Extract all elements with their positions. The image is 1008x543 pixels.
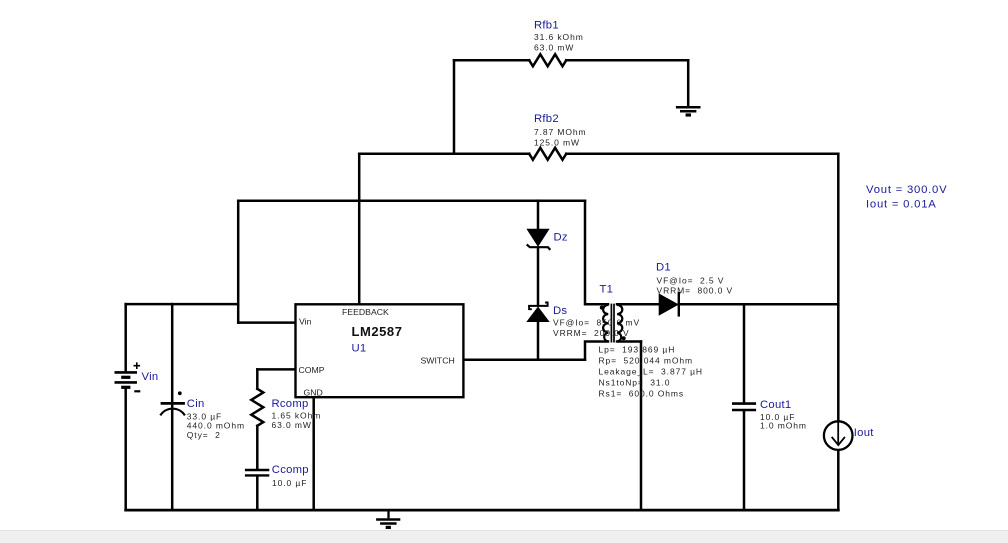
wire Dz top [537,201,540,229]
wire Cin bottom [171,405,174,511]
wire Vin net top horizontal [238,199,585,202]
resistor Rfb1 [529,54,566,66]
svg-text:63.0 mW: 63.0 mW [272,420,312,430]
zener diode Dz [527,229,551,250]
svg-text:Iout: Iout [854,427,874,439]
wire Vin net left vertical [237,201,240,323]
wire Ds bottom [537,322,540,360]
svg-text:Rs1= 600.0 Ohms: Rs1= 600.0 Ohms [599,389,685,399]
wire vertical Rfb1 to Rfb2 node [453,60,456,154]
diode D1 [659,292,679,317]
wire COMP to Rcomp [256,369,259,388]
transformer T1 secondary winding [617,305,622,342]
svg-text:Qty= 2: Qty= 2 [187,430,221,440]
wire battery top [124,304,127,371]
svg-text:T1: T1 [600,284,614,296]
svg-text:Ds: Ds [553,305,567,317]
wire Rfb2 left segment (feedback node) [359,153,529,156]
capacitor Cin [160,391,185,415]
svg-text:Iout = 0.01A: Iout = 0.01A [866,198,937,210]
transformer T1 core [611,304,614,343]
wire input rail [126,303,239,306]
wire battery bottom [124,389,127,510]
svg-text:31.6 kOhm: 31.6 kOhm [534,32,584,42]
svg-text:125.0 mW: 125.0 mW [534,138,580,148]
current source Iout [824,421,853,450]
capacitor Cout1 [732,404,756,410]
wire D1 cathode to output [679,303,839,306]
wire secondary top to D1 [617,303,659,306]
resistor Rfb2 [529,148,566,160]
wire to Vin pin [238,321,295,324]
svg-text:10.0 µF: 10.0 µF [272,478,307,488]
svg-text:Rfb1: Rfb1 [534,20,559,32]
transformer T1 primary winding [603,305,608,342]
battery Vin [115,362,141,391]
svg-text:Rcomp: Rcomp [272,398,309,410]
svg-text:FEEDBACK: FEEDBACK [342,307,389,317]
wire secondary return vertical [640,342,643,511]
svg-text:Ccomp: Ccomp [272,464,309,476]
capacitor Ccomp [245,470,269,475]
wire feedback vertical to IC [358,154,361,303]
wire Rfb2 right segment to Vout rail [566,153,838,156]
IC U1 LM2587 body [296,304,464,397]
svg-text:VF@Io= 850.0 mV: VF@Io= 850.0 mV [553,318,640,328]
transformer T1 secondary phase dot [622,336,626,340]
wire Rfb1 right segment [566,59,688,62]
svg-text:Rfb2: Rfb2 [534,113,559,125]
svg-text:Lp= 193.869 µH: Lp= 193.869 µH [599,345,676,355]
svg-text:Ns1toNp= 31.0: Ns1toNp= 31.0 [599,378,671,388]
wire Vout right vertical upper [837,154,840,421]
svg-text:VF@Io= 2.5 V: VF@Io= 2.5 V [657,276,725,286]
svg-text:Vin: Vin [299,317,312,327]
ground bottom center [376,510,400,527]
wire Rcomp to Ccomp [256,426,259,469]
wire primary bottom corner [585,342,608,360]
wire COMP pin [257,368,295,371]
svg-text:U1: U1 [352,343,367,355]
svg-text:7.87 MOhm: 7.87 MOhm [534,127,587,137]
diode Ds [527,303,548,322]
wire Iout bottom [837,450,840,510]
wire primary top corner [585,201,608,305]
svg-text:Leakage_L= 3.877 µH: Leakage_L= 3.877 µH [599,367,703,377]
wire Dz to Ds [537,249,540,306]
svg-text:Rp= 520.044 mOhm: Rp= 520.044 mOhm [599,356,693,366]
svg-text:Dz: Dz [554,232,568,244]
wire Rfb1 to ground [687,60,690,106]
svg-text:D1: D1 [656,262,671,274]
svg-text:LM2587: LM2587 [352,324,403,339]
wire Cout1 top [743,304,746,402]
wire bottom rail [126,509,839,512]
svg-text:COMP: COMP [299,365,325,375]
svg-text:Cout1: Cout1 [760,399,791,411]
svg-text:VRRM= 200.0 V: VRRM= 200.0 V [553,328,630,338]
bottom scrollbar strip [0,530,1008,543]
wire Cout1 bottom [743,412,746,510]
transformer T1 primary phase dot [600,306,604,310]
wire secondary bottom [617,340,641,343]
svg-text:Vout = 300.0V: Vout = 300.0V [866,184,947,196]
wire GND pin vertical [312,397,315,510]
svg-text:Vin: Vin [142,371,159,383]
wire Rfb1 left segment [454,59,529,62]
wire Ccomp bottom [256,477,259,510]
svg-text:SWITCH: SWITCH [421,356,455,366]
resistor Rcomp [251,389,263,426]
wire Cin top [171,304,174,402]
svg-text:VRRM= 800.0 V: VRRM= 800.0 V [657,286,734,296]
ground top right [676,107,701,115]
wire SWITCH pin [463,358,585,361]
svg-text:1.0 mOhm: 1.0 mOhm [760,420,807,430]
svg-text:Cin: Cin [187,398,205,410]
svg-text:63.0 mW: 63.0 mW [534,43,574,53]
svg-text:GND: GND [304,387,323,397]
